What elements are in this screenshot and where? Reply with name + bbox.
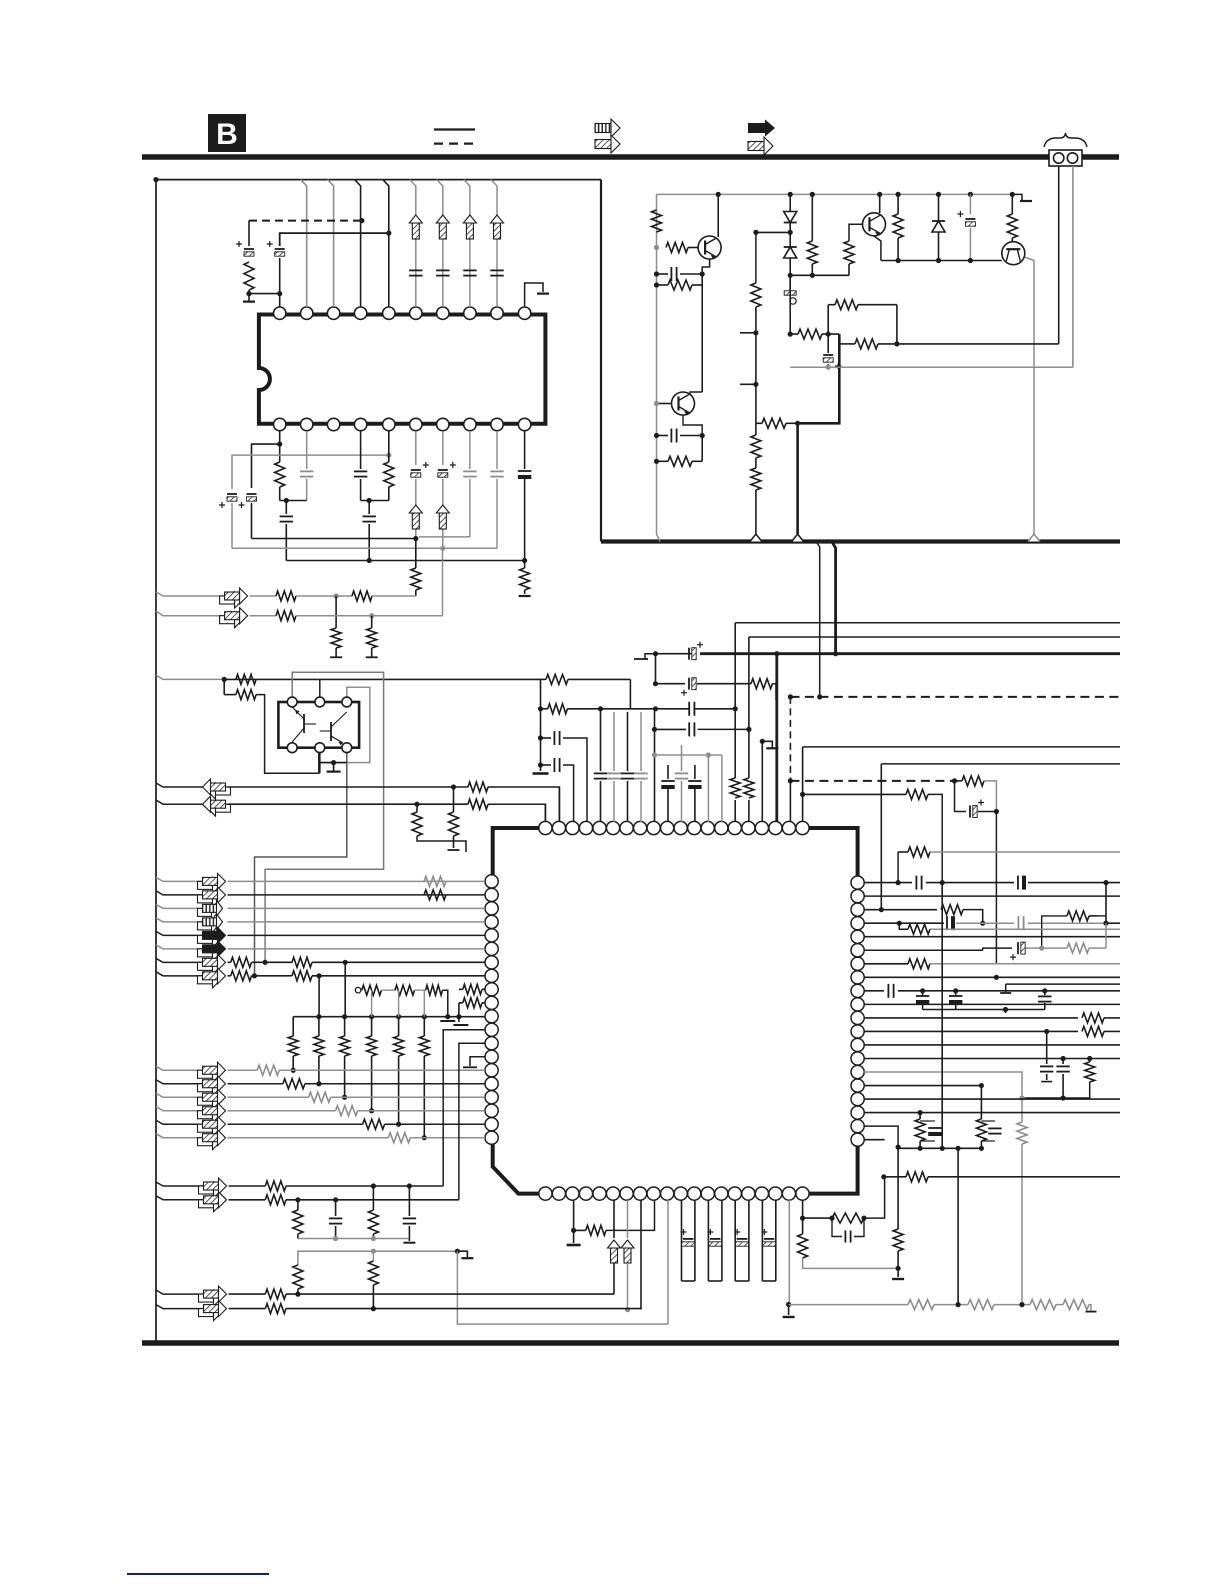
node ladder 6 bbox=[422, 1014, 427, 1019]
node bp19 bbox=[786, 1302, 791, 1307]
wire row lp20 a bbox=[228, 1137, 389, 1139]
wire R73 to bp9 bbox=[606, 1200, 655, 1230]
node topbus x718 bbox=[716, 192, 721, 197]
capacitor C2 electrolytic bbox=[236, 241, 254, 256]
wire row lp2 bbox=[156, 891, 203, 895]
wire rp7 row bbox=[864, 963, 908, 965]
resistor R31 row804 bbox=[468, 799, 488, 809]
capacitor C8 below b4 bbox=[354, 431, 367, 501]
IC1 pin top 6 bbox=[606, 821, 619, 834]
wire lp14 gnd bbox=[463, 1057, 485, 1068]
resistor R62 1106 bbox=[1042, 911, 1106, 948]
capacitor C26 tp8 bbox=[634, 773, 647, 778]
IC1 pin left 13 bbox=[485, 1037, 498, 1050]
capacitor C12 below b8 bbox=[463, 431, 476, 537]
wire row lp18 bbox=[156, 1107, 203, 1111]
wire bus black 538 bbox=[252, 538, 416, 540]
node row1199 335 bbox=[333, 1197, 338, 1202]
resistor R30 pulldown787 bbox=[449, 787, 459, 848]
IC1 pin right 20 bbox=[851, 1133, 864, 1146]
node row1294 297 bbox=[295, 1292, 300, 1297]
IC1 pin top 9 bbox=[647, 821, 660, 834]
node cap435 right bbox=[700, 433, 705, 438]
node tp18 bold bbox=[774, 651, 779, 656]
wire row1304 gnd bbox=[1086, 1305, 1097, 1312]
IC1 pin left 8 bbox=[485, 969, 498, 982]
IC1 pin bottom 6 bbox=[606, 1187, 619, 1200]
wire row lp17 b bbox=[331, 1096, 485, 1098]
node dashed1 a bbox=[788, 694, 793, 699]
IC1 pin right 19 bbox=[851, 1120, 864, 1133]
wire row lp8 seg2 bbox=[252, 975, 293, 977]
arrow row lp19 bbox=[198, 1116, 226, 1136]
node line729 p16 bbox=[746, 727, 751, 732]
IC1 pin top 8 bbox=[634, 821, 647, 834]
wire tp16 up bbox=[744, 637, 754, 822]
wire bp6 down bbox=[613, 1200, 615, 1238]
resistor R55 lp20 bbox=[388, 1133, 410, 1143]
wire row lp2 main bbox=[228, 894, 486, 896]
IC1 pin bottom 3 bbox=[566, 1187, 579, 1200]
wire 996 vert bbox=[995, 812, 997, 964]
Q5 internal transistor A bbox=[292, 707, 316, 742]
wire bus gray 548 bbox=[232, 547, 497, 549]
transistor Q4 bbox=[1002, 242, 1025, 265]
wire rp1 row c bbox=[1028, 882, 1120, 884]
resistor R54 lp19 bbox=[363, 1119, 385, 1129]
ground bar bus1238 bbox=[403, 1239, 415, 1243]
IC1 pin left 14 bbox=[485, 1050, 498, 1063]
arrow row lp15 bbox=[198, 1062, 226, 1082]
resistor R63 below rp4 bbox=[899, 923, 1120, 934]
IC1 pin left 4 bbox=[485, 915, 498, 928]
IC IC2 pin bottom 14 bbox=[437, 418, 449, 430]
IC1 pin right 15 bbox=[851, 1065, 864, 1078]
resistor R87 row1294 bbox=[265, 1289, 286, 1299]
node rp6 1041 bbox=[1039, 946, 1044, 951]
node 896 343 bbox=[894, 341, 899, 346]
IC1 pin top 3 bbox=[566, 821, 579, 834]
IC1 pin left 1 bbox=[485, 875, 498, 888]
transistor Q2 bbox=[672, 392, 695, 415]
capacitor C29 tp12 bold bbox=[688, 781, 701, 787]
wire tp13 up bbox=[707, 755, 709, 822]
wire row1186 a bbox=[229, 1185, 266, 1187]
wire row1304 d bbox=[1056, 1304, 1063, 1306]
wire rp9 row bbox=[864, 990, 884, 992]
resistor R80 row1304 bbox=[1063, 1300, 1089, 1310]
resistor R69 1022 bbox=[1017, 1122, 1027, 1305]
wire bus 275 bbox=[790, 274, 849, 276]
power arrow pin9 bbox=[491, 215, 504, 239]
IC1 pin left 11 bbox=[485, 1010, 498, 1023]
wire row lp1 bbox=[156, 877, 203, 881]
arrow row1308 bbox=[199, 1301, 227, 1321]
IC1 pin right 16 bbox=[851, 1079, 864, 1092]
capacitor C6 below b2 bbox=[300, 431, 313, 501]
node line1176 l bbox=[881, 1174, 886, 1179]
resistor R72 line1176 bbox=[906, 1172, 928, 1182]
wire bp7 down b bbox=[627, 1263, 629, 1310]
thick top border bar bbox=[142, 154, 1119, 160]
resistor R34 lp2 bbox=[424, 890, 446, 900]
wire tp6 up bbox=[613, 712, 615, 822]
node R10 bottom bbox=[810, 273, 815, 278]
wire rp7 b bbox=[930, 963, 1120, 965]
node topbus x790 bbox=[788, 192, 793, 197]
resistor R86 tall2 bbox=[368, 1251, 378, 1308]
wire row 804 bbox=[156, 800, 203, 804]
wire row804 to pin bbox=[488, 804, 545, 822]
ground bar bp19 bbox=[783, 1305, 795, 1318]
wire row lp17 a bbox=[228, 1096, 309, 1098]
wire diode chain top bbox=[789, 194, 791, 211]
IC1 pin top 16 bbox=[742, 821, 755, 834]
connector CN pin 2 bbox=[1067, 153, 1077, 163]
IC IC2 pin top 7 bbox=[437, 307, 449, 319]
node bus1238 b bbox=[371, 1236, 376, 1241]
IC1 pin right 17 bbox=[851, 1092, 864, 1105]
ground stub R1 bbox=[243, 294, 255, 302]
wire row lp4 bbox=[156, 918, 203, 922]
wire row lp18 b bbox=[358, 1110, 485, 1112]
capacitor C28 tp11 bbox=[675, 773, 688, 778]
IC1 pin bottom 11 bbox=[674, 1187, 687, 1200]
wire 819 vert bbox=[816, 542, 820, 697]
wire RC to 884 bbox=[864, 1177, 885, 1218]
wire line637 bbox=[749, 636, 1120, 638]
resistor R9 fb2 bbox=[657, 436, 703, 467]
resistor R64 rp6 bbox=[1042, 943, 1106, 953]
node bp7 row bbox=[625, 1307, 630, 1312]
node ladder bottom 5 bbox=[396, 1122, 401, 1127]
node fet stub2 bbox=[456, 1014, 461, 1019]
node rp18 920 bbox=[918, 1110, 923, 1115]
capacitor C35 rp4 bold bbox=[947, 916, 953, 930]
wire chain tap1 bbox=[371, 990, 373, 1017]
wire row1294 a bbox=[229, 1293, 266, 1295]
wire bp3 down bbox=[573, 1200, 575, 1230]
wire row596 b bbox=[296, 595, 352, 597]
resistor R68 rp14 bbox=[1063, 1058, 1095, 1098]
node tp20 794 bbox=[800, 792, 805, 797]
wire row lp7 bbox=[156, 958, 203, 962]
IC1 pin bottom 19 bbox=[782, 1187, 795, 1200]
wire chain tap2 bbox=[398, 990, 400, 1017]
wire row lp1 main bbox=[228, 880, 486, 882]
resistor R71 pair2 bbox=[976, 1119, 986, 1148]
left border wire bbox=[155, 178, 157, 1341]
node lp7 a bbox=[263, 960, 268, 965]
node rp1 1106 bbox=[1103, 880, 1108, 885]
wire tp9 up bbox=[654, 709, 656, 822]
resistor R67 rp12 bbox=[1082, 1026, 1120, 1036]
wire Q1 collector bbox=[717, 194, 719, 237]
node lp8 b bbox=[317, 973, 322, 978]
resistor R23 pulldown bbox=[331, 596, 341, 657]
IC1 pin left 3 bbox=[485, 902, 498, 915]
resistor R77 row1304 bbox=[908, 1300, 934, 1310]
wire 655 vert bbox=[655, 654, 657, 684]
node rp9 x1044 bbox=[1042, 988, 1047, 993]
wire C3 to pin1 top bbox=[279, 294, 281, 307]
resistor R19 row304 bbox=[828, 300, 897, 310]
capacitor C37 electrolytic rp6 bbox=[1010, 942, 1025, 960]
node rp9 x922 bbox=[920, 988, 925, 993]
wire D2 down bbox=[789, 258, 791, 275]
top-right block left wire bbox=[600, 180, 602, 542]
resistor R20 row343 bbox=[839, 339, 897, 349]
legend arrow diag-hatch bbox=[595, 135, 620, 153]
capacitor C48 electrolytic radial bbox=[707, 1200, 722, 1281]
wire lp8 to ladder bbox=[318, 976, 320, 1017]
wire solid to pin5 wire bbox=[280, 233, 389, 246]
node rp4 899 bbox=[897, 921, 902, 926]
wire bus1238 bbox=[298, 1238, 410, 1240]
Q5 internal transistor B bbox=[320, 712, 347, 745]
IC IC2 pin top 5 bbox=[383, 307, 395, 319]
resistor R60 above rp1 bbox=[898, 847, 1120, 883]
wire row 787 bbox=[156, 783, 203, 787]
capacitor C10 above pin6 bbox=[409, 270, 422, 275]
wire rp4 1106 blk bbox=[1106, 922, 1120, 924]
capacitor C27 tp10 bold bbox=[661, 781, 674, 787]
power arrow b6 bbox=[409, 505, 422, 529]
node bus1238 a bbox=[333, 1236, 338, 1241]
arrow row lp18 bbox=[198, 1103, 226, 1123]
wire 881 vert bbox=[880, 764, 882, 910]
IC IC2 pin top 10 bbox=[518, 307, 530, 319]
wire row1294 bbox=[156, 1290, 204, 1294]
Q5 pin b2 bbox=[315, 743, 325, 753]
bottom page link underline bbox=[127, 1573, 269, 1575]
node left vert 232 bbox=[753, 230, 758, 235]
tent junction 755 bbox=[750, 534, 762, 542]
wire DIP top pin2 to border bbox=[301, 180, 307, 307]
node lp8 a bbox=[252, 973, 257, 978]
wire line984 gnd bbox=[1000, 984, 1011, 993]
node C3 bottom bbox=[277, 291, 282, 296]
wire Q3 emitter bbox=[874, 236, 881, 261]
IC IC2 pin bottom 17 bbox=[354, 418, 366, 430]
wire row1199 b bbox=[286, 1199, 459, 1201]
IC IC2 pin top 3 bbox=[327, 307, 339, 319]
wire R7 to Q1 bbox=[688, 247, 698, 249]
capacitor C43 rp12 bbox=[1040, 1031, 1053, 1081]
wire row lp7 seg2 bbox=[252, 961, 293, 963]
power arrow pin7 bbox=[436, 215, 449, 239]
node ladder 2 bbox=[316, 1014, 321, 1019]
wire ladder bus bbox=[293, 1016, 485, 1018]
wire row787 to pin bbox=[488, 787, 559, 822]
node 755 384 bbox=[753, 382, 758, 387]
wire DIP top pin3 to border bbox=[328, 180, 334, 307]
wire 755 332 left bbox=[740, 332, 756, 334]
ground chassis topbus bbox=[1012, 194, 1032, 201]
wire line729 bbox=[655, 722, 749, 736]
resistor R32 pulldown804 bbox=[412, 804, 466, 852]
wire thick 797 down bbox=[796, 423, 799, 534]
capacitor C19 electrolytic bbox=[823, 351, 841, 369]
wire 896 to connector bbox=[897, 343, 1059, 345]
node rp3 881 bbox=[879, 907, 884, 912]
ground fet bar1 bbox=[440, 1020, 455, 1022]
resistor R12 bbox=[893, 194, 903, 260]
node row1186 373 bbox=[371, 1183, 376, 1188]
capacitor C9 mid2 bbox=[363, 501, 376, 561]
resistor R39 ladder bbox=[288, 1036, 298, 1070]
capacitor C47 electrolytic radial bbox=[681, 1200, 695, 1281]
arrow row1199 bbox=[199, 1192, 227, 1212]
node r461 left bbox=[654, 459, 659, 464]
wire row lp16 a bbox=[228, 1083, 283, 1085]
wire line709 gap bbox=[0, 0, 1, 1]
IC IC2 pin bottom 16 bbox=[383, 418, 395, 430]
ground bar R5 bbox=[519, 595, 531, 597]
node line1148 942 bbox=[940, 1146, 945, 1151]
wire rp8 row bbox=[864, 976, 1120, 978]
node line755 p13 bbox=[706, 752, 711, 757]
wire row804 main bbox=[228, 803, 469, 805]
node topbus x898 bbox=[896, 192, 901, 197]
node D2 bottom bbox=[788, 273, 793, 278]
wire line746 bbox=[803, 746, 1120, 748]
IC1 pin top 11 bbox=[674, 821, 687, 834]
resistor R17 row423 bbox=[756, 418, 798, 428]
node c44 bottom bbox=[1061, 1095, 1066, 1100]
capacitor C5 electrolytic bbox=[219, 494, 237, 508]
node rail540 709 bbox=[538, 706, 543, 711]
node fet stub1 bbox=[445, 1014, 450, 1019]
node ladder 3 bbox=[342, 1014, 347, 1019]
arrow row804 left bbox=[203, 796, 231, 816]
IC IC2 pin bottom 19 bbox=[301, 418, 313, 430]
wire rp17 row bbox=[864, 1098, 1120, 1100]
capacitor C13 above pin9 bbox=[490, 270, 503, 275]
wire line1098 bbox=[1022, 1097, 1063, 1099]
wire row lp15 bbox=[156, 1066, 203, 1070]
node topbus x970 bbox=[968, 192, 973, 197]
wire rp1 row bbox=[864, 882, 912, 884]
arrow row1186 bbox=[199, 1178, 227, 1198]
wire ladder corner bbox=[292, 1017, 294, 1036]
wire join 1009 bbox=[923, 1009, 1045, 1011]
node rp12 1046 bbox=[1044, 1029, 1049, 1034]
wire line709 b bbox=[567, 708, 734, 710]
wire rp10 row bbox=[864, 1003, 1120, 1005]
wire 958 vert bbox=[957, 1148, 959, 1304]
wire line1148 bbox=[898, 1147, 981, 1149]
resistor R7 base Q1 bbox=[666, 243, 688, 253]
wire row lp8 bbox=[156, 972, 203, 976]
wire Q2 emitter bbox=[683, 415, 702, 436]
node lp7 b bbox=[343, 960, 348, 965]
IC1 pin bottom 15 bbox=[728, 1187, 741, 1200]
wire line622 bbox=[735, 622, 1120, 624]
node ladder bottom 6 bbox=[422, 1135, 427, 1140]
wire rp16 row bbox=[864, 1085, 981, 1087]
capacitor C53 pull bbox=[403, 1186, 416, 1239]
bar R30 end bbox=[448, 849, 460, 851]
wire rp15 row gray bbox=[864, 1072, 1022, 1122]
IC1 pin left 20 bbox=[485, 1131, 498, 1144]
IC1 pin left 7 bbox=[485, 956, 498, 969]
page frame label B bbox=[208, 114, 246, 152]
wire row1304 c bbox=[994, 1304, 1030, 1306]
transistor Q1 bbox=[698, 236, 721, 259]
wire rp13 row bbox=[864, 1044, 1120, 1046]
capacitor C34 rp1 bold bbox=[1018, 876, 1024, 890]
wire tp8 up bbox=[640, 712, 642, 822]
wire pin10 ground bbox=[525, 283, 543, 307]
resistor R59 line794 bbox=[906, 789, 928, 799]
IC1 pin left 17 bbox=[485, 1091, 498, 1104]
wire bus black 560 bbox=[286, 560, 524, 562]
power arrow bp6 bbox=[608, 1240, 621, 1263]
legend arrow diag-hatch 2 bbox=[748, 137, 773, 155]
node 898 1268 bbox=[896, 1266, 901, 1271]
wire tp15 up bbox=[730, 623, 740, 822]
arrow row lp1 bbox=[198, 873, 226, 893]
node rp8 996 bbox=[994, 975, 999, 980]
wire b4b5 join bbox=[361, 500, 389, 502]
capacitor C11 above pin7 bbox=[436, 270, 449, 275]
legend solid line bbox=[434, 128, 475, 130]
node ladder 4 bbox=[369, 1014, 374, 1019]
node row679 left bbox=[222, 677, 227, 682]
wire row lp5 bbox=[156, 931, 203, 935]
IC IC2 pin top 8 bbox=[464, 307, 476, 319]
node tp9 755 bbox=[652, 752, 657, 757]
wire RC 1218 bbox=[803, 1217, 832, 1219]
wire b1 branch left bbox=[252, 444, 280, 488]
resistor R1 below C2 bbox=[244, 262, 254, 290]
node pair2 bot bbox=[979, 1146, 984, 1151]
wire lp7 to ladder bbox=[344, 962, 346, 1016]
IC IC2 body bbox=[259, 315, 546, 424]
resistor R51 lp16 bbox=[283, 1079, 305, 1089]
node 797 423 bbox=[795, 421, 800, 426]
Q5 pin t3 bbox=[342, 697, 352, 707]
IC1 pin bottom 18 bbox=[769, 1187, 782, 1200]
IC IC2 pin bottom 18 bbox=[327, 418, 339, 430]
wire tp10 up bbox=[667, 765, 669, 822]
wire 790 vert bbox=[789, 275, 791, 334]
wire row1186 bbox=[156, 1182, 204, 1186]
wire R1 to C3 bbox=[249, 258, 280, 294]
arrow row596 bbox=[220, 588, 248, 608]
capacitor C13 below b9 bbox=[490, 431, 503, 548]
node 755 332 bbox=[753, 330, 758, 335]
wire DIP top pin9 to border bbox=[491, 180, 497, 307]
wire line794 b bbox=[928, 794, 942, 882]
arrow row lp4 bbox=[198, 914, 223, 934]
IC1 pin top 5 bbox=[593, 821, 606, 834]
capacitor C18 electrolytic bbox=[957, 194, 975, 260]
node rail base bbox=[654, 245, 659, 250]
IC IC2 pin top 1 bbox=[274, 307, 286, 319]
node 828 367 bbox=[826, 365, 831, 370]
capacitor C42 v bbox=[1038, 991, 1051, 1010]
node topbus x812 bbox=[810, 192, 815, 197]
node topbus right bbox=[1010, 192, 1015, 197]
node ladder 5 bbox=[396, 1014, 401, 1019]
wire line1176 bbox=[884, 1176, 906, 1178]
wire row1308 a bbox=[229, 1308, 266, 1310]
node dashed1 b bbox=[817, 694, 822, 699]
legend arrow solid bbox=[748, 120, 775, 137]
power arrow pin6 bbox=[409, 215, 422, 239]
